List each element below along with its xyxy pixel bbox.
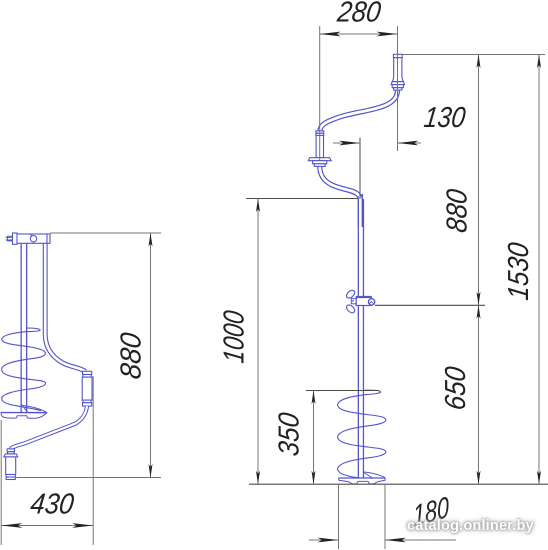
assembled auger: inner tube lines at shaft top [361, 194, 363, 227]
assembled auger: top crank knob [391, 54, 404, 90]
svg-text:350: 350 [274, 411, 306, 458]
folded auger: base plate [1, 413, 47, 419]
assembled auger: blade curves above plate [364, 472, 385, 478]
clamp level extension line [375, 304, 485, 306]
dimension 880 left: extension lines [50, 232, 161, 234]
ground baseline right figure [249, 483, 548, 485]
svg-text:1000: 1000 [219, 309, 251, 365]
svg-text:280: 280 [335, 0, 383, 28]
folded auger: head box [13, 233, 51, 244]
svg-text:430: 430 [29, 489, 76, 521]
dimension 180: arrows with tails [309, 539, 339, 541]
dimension 650: line and arrows [478, 305, 480, 484]
assembled auger: bottom blade plate [339, 478, 386, 484]
folded auger: shaft tube [20, 243, 27, 413]
assembled auger: upper crank tube [320, 90, 398, 131]
assembled auger: main shaft [358, 199, 364, 478]
svg-text:1530: 1530 [503, 241, 535, 302]
dimension 280: dimension line and arrows [320, 33, 398, 35]
dimension 1000: extension line [246, 198, 358, 200]
folded auger: tip at left of head [6, 236, 13, 241]
assembled auger: lower crank tube [320, 166, 361, 203]
folded auger: bottom grip [4, 449, 18, 480]
assembled auger: wing-nut clamp wings [345, 289, 356, 300]
dimension 180: extension lines [338, 484, 340, 549]
dimension 130: centerline through shaft [359, 138, 361, 200]
dimension 880 left: dimension line and arrows [150, 233, 152, 478]
watermark catalog.onliner.by [407, 518, 534, 534]
assembled auger: wing-nut clamp body [356, 297, 371, 306]
dimension 350: extension line [306, 390, 379, 392]
folded auger: lower handle tube S-curve [10, 406, 87, 452]
folded auger: blade curve above base plate [23, 406, 47, 413]
dimension 880 right: line and arrows [478, 55, 480, 306]
svg-text:650: 650 [440, 365, 472, 412]
assembled auger: crank grip [308, 131, 331, 167]
assembled auger: spiral flight [338, 390, 386, 478]
dimension 350: line and arrows [313, 391, 315, 485]
folded auger: upper grip [82, 371, 92, 406]
folded auger: folded handle tube with bend to grip [45, 243, 85, 371]
dimension 1530: line and arrows [538, 55, 540, 485]
dimension 130: arrows with tails [333, 142, 360, 144]
svg-text:880: 880 [116, 331, 148, 381]
dimension 430: dimension line and arrows [1, 525, 93, 527]
folded auger: spiral flight [2, 328, 46, 411]
svg-text:130: 130 [422, 102, 467, 134]
dimension 1000: line and arrows [257, 199, 259, 485]
folded auger: lock knob circle on head [30, 236, 36, 242]
dimension 430: extension lines [0, 420, 2, 545]
dimension 280: extension lines [319, 26, 321, 160]
top extension line at knob [402, 54, 545, 56]
svg-text:880: 880 [442, 187, 474, 234]
